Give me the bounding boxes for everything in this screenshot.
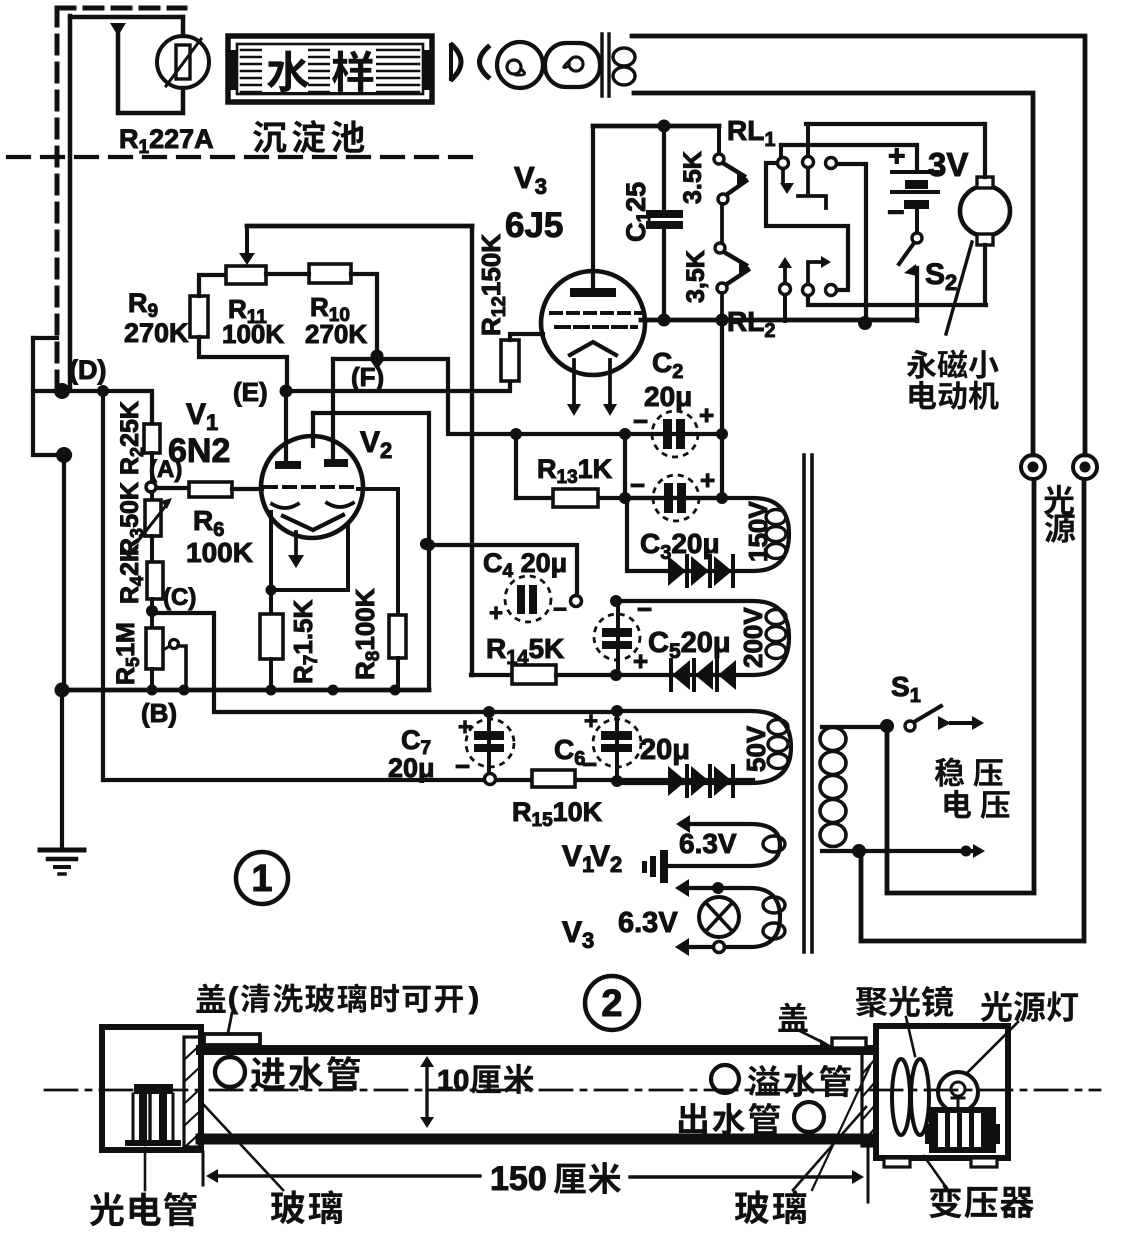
svg-text:R12150K: R12150K	[476, 234, 510, 336]
svg-text:+: +	[633, 646, 648, 676]
svg-text:+: +	[699, 400, 714, 430]
svg-text:+: +	[458, 714, 472, 741]
svg-text:−: −	[553, 596, 567, 623]
svg-text:R225K: R225K	[116, 401, 147, 475]
svg-text:6J5: 6J5	[505, 206, 563, 245]
svg-text:R51M: R51M	[112, 622, 143, 685]
svg-text:(D): (D)	[69, 355, 106, 385]
svg-text:C4 20μ: C4 20μ	[483, 548, 567, 582]
svg-text:−: −	[637, 594, 652, 624]
svg-text:2: 2	[601, 983, 622, 1025]
svg-text:R1510K: R1510K	[512, 797, 603, 831]
svg-text:100K: 100K	[186, 537, 253, 568]
svg-text:R1227A: R1227A	[119, 124, 214, 158]
svg-text:3,5K: 3,5K	[682, 250, 710, 303]
svg-text:C320μ: C320μ	[640, 528, 720, 564]
svg-text:(F): (F)	[351, 362, 384, 392]
svg-text:20μ: 20μ	[644, 381, 692, 412]
svg-text:6N2: 6N2	[168, 432, 230, 470]
svg-text:+: +	[888, 140, 906, 173]
svg-text:R71.5K: R71.5K	[288, 599, 322, 684]
svg-text:20μ: 20μ	[640, 734, 690, 766]
svg-text:10: 10	[437, 1065, 469, 1097]
svg-text:R42K: R42K	[116, 544, 147, 604]
svg-text:150: 150	[490, 1160, 547, 1198]
svg-text:3V: 3V	[928, 146, 968, 183]
svg-text:270K: 270K	[124, 318, 189, 348]
svg-text:3.5K: 3.5K	[679, 151, 707, 204]
svg-text:C520μ: C520μ	[648, 627, 731, 663]
svg-text:(C): (C)	[163, 584, 196, 611]
svg-text:C125: C125	[621, 182, 655, 242]
svg-text:50V: 50V	[741, 725, 771, 772]
svg-text:−: −	[630, 470, 645, 500]
svg-text:R8100K: R8100K	[350, 588, 384, 680]
svg-text:270K: 270K	[305, 319, 367, 349]
svg-text:(E): (E)	[233, 377, 268, 407]
svg-text:6.3V: 6.3V	[618, 907, 678, 939]
svg-text:(: (	[228, 982, 238, 1015]
svg-text:−: −	[887, 196, 905, 229]
svg-text:100K: 100K	[222, 319, 284, 349]
svg-text:−: −	[455, 751, 470, 781]
svg-text:200V: 200V	[738, 607, 768, 668]
svg-text:+: +	[700, 465, 715, 495]
svg-text:(B): (B)	[141, 698, 177, 728]
svg-text:): )	[469, 982, 479, 1015]
svg-text:6.3V: 6.3V	[679, 828, 737, 859]
svg-text:1: 1	[251, 858, 272, 900]
svg-text:+: +	[584, 708, 598, 735]
svg-text:+: +	[489, 600, 503, 627]
